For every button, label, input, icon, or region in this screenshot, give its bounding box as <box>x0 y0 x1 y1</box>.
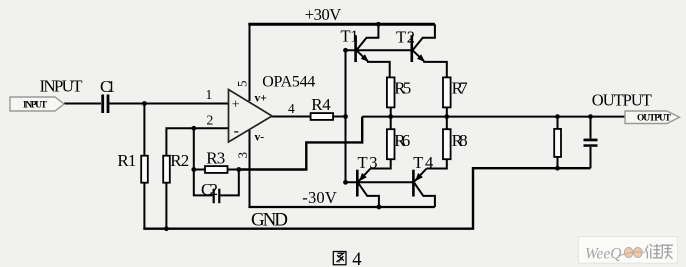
svg-text:v-: v- <box>255 132 265 144</box>
svg-text:1: 1 <box>206 87 213 102</box>
svg-text:T1: T1 <box>341 27 359 46</box>
svg-text:R8: R8 <box>452 131 468 150</box>
svg-text:T4: T4 <box>413 153 433 172</box>
svg-text:v+: v+ <box>255 93 267 105</box>
svg-text:OUTPUT: OUTPUT <box>592 91 652 110</box>
svg-text:+30V: +30V <box>305 5 342 24</box>
svg-text:R1: R1 <box>117 151 136 170</box>
svg-text:R4: R4 <box>311 95 331 114</box>
svg-text:R3: R3 <box>206 149 225 168</box>
svg-text:R6: R6 <box>394 131 410 150</box>
svg-text:R7: R7 <box>452 79 469 98</box>
svg-text:C1: C1 <box>100 77 116 96</box>
svg-text:+: + <box>232 98 240 113</box>
svg-text:INPUT: INPUT <box>40 77 84 96</box>
svg-text:OUTPUT: OUTPUT <box>637 114 672 124</box>
svg-text:3: 3 <box>235 152 250 159</box>
svg-text:4: 4 <box>288 101 295 116</box>
svg-text:R5: R5 <box>394 79 411 98</box>
svg-text:T2: T2 <box>396 27 415 46</box>
svg-text:OPA544: OPA544 <box>262 74 315 91</box>
svg-text:INPUT: INPUT <box>23 100 48 110</box>
svg-text:R2: R2 <box>170 151 189 170</box>
svg-text:-30V: -30V <box>302 188 337 207</box>
svg-text:-: - <box>234 123 239 140</box>
svg-text:GND: GND <box>251 209 288 230</box>
svg-text:C2: C2 <box>201 180 218 199</box>
svg-text:T3: T3 <box>358 153 378 172</box>
svg-text:WeeQ: WeeQ <box>585 246 621 263</box>
svg-text:4: 4 <box>352 250 361 267</box>
svg-text:2: 2 <box>207 112 214 127</box>
svg-text:5: 5 <box>235 81 250 88</box>
